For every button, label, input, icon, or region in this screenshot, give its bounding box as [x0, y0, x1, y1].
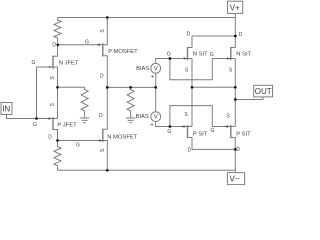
- transistor N MOSFET source lead: [103, 141, 108, 171]
- wire from IN box: [7, 115, 37, 119]
- voltage source V1 BIAS upper: [151, 63, 161, 73]
- svg-text:+: +: [150, 122, 154, 128]
- wire bottom rail: [58, 169, 236, 171]
- transistor N JFET drain lead: [53, 45, 58, 57]
- resistor R4 middle: [127, 87, 134, 118]
- transistor N SIT right (bar): [230, 47, 232, 60]
- svg-text:S: S: [229, 68, 233, 74]
- transistor P MOSFET (bar): [102, 43, 104, 56]
- wire N SIT gates U-link: [170, 59, 212, 80]
- terminal box OUT: [254, 85, 273, 97]
- svg-text:D: D: [239, 32, 243, 38]
- transistor P SIT right drain lead: [231, 138, 236, 150]
- svg-text:D: D: [236, 147, 240, 153]
- junction JFET source / R3 tap: [56, 86, 59, 89]
- svg-text:G: G: [167, 51, 171, 57]
- resistor R3 middle-left: [81, 87, 88, 118]
- svg-text:S: S: [100, 29, 106, 33]
- svg-text:V+: V+: [230, 3, 240, 12]
- transistor P JFET drain lead: [53, 130, 58, 141]
- svg-text:S: S: [184, 112, 188, 118]
- svg-text:BIAS: BIAS: [136, 66, 149, 72]
- svg-text:D: D: [100, 74, 104, 80]
- svg-text:+: +: [151, 75, 155, 81]
- svg-text:G: G: [167, 129, 171, 135]
- transistor N SIT left drain lead: [188, 36, 193, 48]
- junction bias chain midpoint: [154, 86, 157, 89]
- wire right SIT sources vertical: [234, 59, 236, 127]
- svg-text:OUT: OUT: [255, 87, 272, 96]
- transistor N JFET source lead: [53, 66, 58, 68]
- junction R4 top: [129, 86, 132, 89]
- wire N SIT right gate stub: [212, 58, 231, 60]
- wire N JFET gate: [37, 66, 54, 68]
- transistor N JFET gate arrow: [49, 66, 52, 68]
- resistor R1 top-left: [54, 18, 61, 45]
- svg-text:S: S: [50, 102, 56, 106]
- svg-text:P SIT: P SIT: [193, 131, 208, 137]
- svg-text:G: G: [85, 39, 89, 45]
- wire SIT sources cross link: [192, 86, 235, 88]
- wire V2 bottom lead: [156, 122, 188, 127]
- svg-text:N MOSFET: N MOSFET: [107, 134, 137, 140]
- wire P SIT gates U-link: [170, 106, 212, 127]
- svg-text:G: G: [32, 60, 36, 66]
- transistor N SIT right gate arrow: [227, 57, 230, 59]
- resistor R2 bottom-left: [54, 141, 61, 171]
- svg-text:P SIT: P SIT: [236, 131, 251, 137]
- transistor P SIT left source lead: [188, 126, 193, 128]
- wire top rail V+: [58, 17, 236, 19]
- junction N SIT gate tap: [169, 57, 172, 60]
- transistor N SIT right source lead: [231, 58, 236, 60]
- transistor P MOSFET source lead: [103, 18, 108, 45]
- transistor P SIT right source lead: [231, 126, 236, 128]
- wire P JFET gate: [37, 118, 54, 120]
- transistor N MOSFET (bar): [102, 129, 104, 142]
- junction OUT tap: [234, 98, 237, 101]
- wire V1 top lead: [156, 59, 188, 64]
- svg-text:P MOSFET: P MOSFET: [108, 49, 138, 55]
- wire input riser: [36, 67, 38, 119]
- wire N SIT drain rail: [192, 35, 235, 37]
- svg-text:N SIT: N SIT: [193, 52, 208, 58]
- transistor P SIT left drain lead: [188, 138, 193, 150]
- svg-text:D: D: [187, 31, 191, 37]
- wire V1 bottom lead: [155, 73, 157, 87]
- junction P SIT gate tap: [169, 125, 172, 128]
- junction on top rail at P MOSFET source: [106, 16, 109, 19]
- transistor P MOSFET drain lead: [103, 56, 108, 88]
- svg-text:V: V: [154, 115, 158, 121]
- wire to V- box: [234, 149, 236, 172]
- wire left SIT sources vertical: [191, 59, 193, 127]
- svg-text:G: G: [210, 128, 214, 134]
- transistor N MOSFET gate arrow: [99, 139, 102, 141]
- svg-text:N JFET: N JFET: [59, 61, 79, 67]
- wire JFET source to resistor R3: [58, 86, 85, 88]
- svg-text:G: G: [76, 142, 80, 148]
- wire P SIT right gate stub: [212, 126, 231, 128]
- svg-text:D: D: [99, 113, 103, 119]
- transistor P JFET (bar): [52, 117, 54, 130]
- junction input node: [35, 117, 38, 120]
- junction N JFET drain node: [56, 43, 59, 46]
- ground G2: [126, 118, 135, 123]
- wire V+ vertical drop: [234, 13, 236, 36]
- svg-text:P JFET: P JFET: [57, 122, 77, 128]
- junction P JFET drain node: [56, 139, 59, 142]
- wire P SIT drain rail: [192, 148, 235, 150]
- junction VAS node: [106, 86, 109, 89]
- junction left SIT source: [191, 86, 194, 89]
- wire N MOSFET gate: [58, 140, 103, 142]
- junction P SIT drain rail / V- column: [234, 148, 237, 151]
- transistor P SIT right gate arrow: [224, 125, 228, 127]
- svg-text:S: S: [50, 76, 56, 80]
- svg-text:S: S: [226, 113, 230, 119]
- svg-text:G: G: [33, 122, 37, 128]
- terminal box V-: [227, 173, 244, 185]
- wire JFET sources vertical: [57, 67, 59, 119]
- wire to OUT box: [235, 97, 263, 100]
- svg-text:S: S: [100, 148, 106, 152]
- transistor P SIT left (bar): [187, 125, 189, 138]
- terminal box IN: [1, 103, 12, 115]
- terminal box V+: [228, 1, 243, 13]
- svg-text:D: D: [48, 135, 52, 141]
- svg-text:N SIT: N SIT: [236, 52, 251, 58]
- svg-text:D: D: [187, 147, 191, 153]
- transistor P SIT right (bar): [230, 125, 232, 138]
- transistor N SIT right drain lead: [231, 36, 236, 48]
- transistor P MOSFET gate arrow: [96, 44, 100, 46]
- svg-text:IN: IN: [2, 105, 10, 114]
- ground G1: [80, 118, 89, 123]
- svg-text:V: V: [154, 66, 158, 72]
- transistor P JFET gate arrow: [47, 117, 51, 119]
- transistor P SIT left gate arrow: [181, 125, 185, 127]
- voltage source V2 BIAS lower: [151, 112, 161, 122]
- wire V2 top lead: [155, 87, 157, 111]
- transistor N SIT left gate arrow: [184, 57, 187, 59]
- node N JFET drain / P MOSFET gate wire: [58, 44, 103, 46]
- svg-text:BIAS: BIAS: [136, 114, 149, 120]
- transistor P JFET source lead: [53, 118, 58, 120]
- wire VAS node to bias chain: [107, 86, 155, 88]
- transistor N MOSFET drain lead: [103, 87, 108, 129]
- svg-text:G: G: [210, 52, 214, 58]
- transistor N JFET (bar): [52, 56, 54, 69]
- transistor N SIT left source lead: [188, 58, 193, 60]
- transistor N SIT left (bar): [187, 47, 189, 60]
- svg-text:D: D: [52, 43, 56, 49]
- junction N SIT drain rail / V+ column: [234, 35, 237, 38]
- junction N MOSFET source on bottom rail: [106, 169, 109, 172]
- svg-text:S: S: [185, 67, 189, 73]
- junction right SIT source: [234, 86, 237, 89]
- svg-text:V−: V−: [229, 174, 239, 183]
